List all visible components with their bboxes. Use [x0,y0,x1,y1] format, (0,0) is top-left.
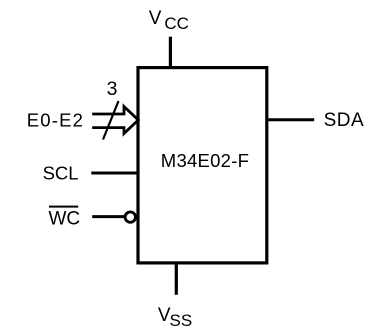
wire VSS to pin 4 [175,263,178,295]
wire SDA from pin 5 [267,118,314,121]
wire VCC supply to pin 8 [169,37,172,68]
wire WC to inversion bubble [92,215,124,218]
svg-text:SDA: SDA [324,110,365,131]
svg-text:V: V [149,8,162,29]
svg-text:M34E02-F: M34E02-F [161,150,249,171]
svg-text:WC: WC [49,208,81,229]
svg-text:SCL: SCL [43,163,79,184]
power VCC label [149,8,189,33]
svg-text:E0-E2: E0-E2 [27,109,84,130]
svg-text:CC: CC [164,14,189,33]
bus width slash [103,101,119,140]
svg-text:SS: SS [170,311,193,330]
ground VSS label [158,305,192,330]
label WC (active low, overline) [49,206,81,230]
IC U1 body (M34E02-F) [138,68,267,263]
bus E0-E2 (3-bit) open arrow [92,107,138,134]
svg-text:3: 3 [107,78,118,100]
inversion bubble on WC pin 7 [125,212,135,222]
wire SCL to pin 6 [91,172,138,175]
